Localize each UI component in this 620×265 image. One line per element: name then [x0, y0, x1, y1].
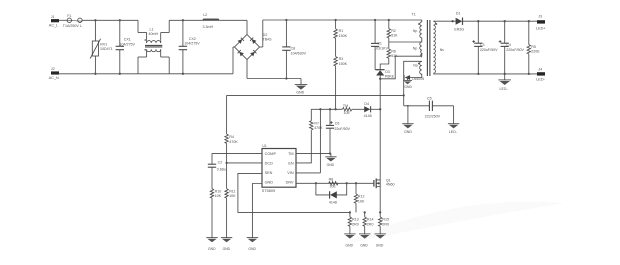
- svg-text:51K: 51K: [391, 34, 398, 38]
- svg-text:150K: 150K: [339, 62, 348, 66]
- net LED- at C5 right: [448, 106, 459, 134]
- resistor R5: [527, 21, 540, 74]
- resistor R7: [310, 109, 324, 130]
- junction R12 gate: [355, 182, 357, 184]
- svg-text:GND: GND: [404, 130, 412, 134]
- svg-text:GND: GND: [376, 243, 384, 247]
- svg-text:4148: 4148: [329, 200, 337, 204]
- junction DC+ R2: [388, 19, 390, 21]
- junction source sense node: [379, 211, 381, 213]
- svg-text:GND: GND: [296, 90, 304, 94]
- wire R3 down to feedback line: [335, 66, 337, 109]
- wire DCD line: [227, 162, 262, 164]
- junction D5 gnd: [407, 77, 409, 79]
- svg-text:Np: Np: [413, 46, 417, 50]
- svg-text:EN: EN: [288, 161, 294, 165]
- junction R5 top: [528, 20, 530, 22]
- resistor TM 10E: [342, 104, 352, 115]
- capacitor C3: [472, 21, 498, 74]
- ground R14: [359, 234, 370, 248]
- svg-text:104/630V: 104/630V: [291, 52, 307, 56]
- svg-text:104/275V: 104/275V: [184, 41, 200, 45]
- svg-text:J1: J1: [51, 15, 55, 19]
- svg-text:TM: TM: [343, 104, 348, 108]
- junction R14: [364, 211, 366, 213]
- svg-text:2R0: 2R0: [367, 222, 374, 226]
- ground primary near bridge: [295, 79, 308, 95]
- wire R1 to R3: [335, 38, 337, 56]
- wire GND pin route: [252, 184, 262, 238]
- svg-text:COMP: COMP: [265, 152, 277, 156]
- svg-text:LED-: LED-: [449, 130, 458, 134]
- junction R5 bottom: [528, 73, 530, 75]
- svg-text:220uF/50V: 220uF/50V: [506, 48, 524, 52]
- wire DRV gate line: [296, 182, 374, 184]
- svg-text:22uF/50V: 22uF/50V: [334, 127, 350, 131]
- watermark swoosh: [340, 202, 565, 245]
- wire DC+ rail: [263, 19, 422, 21]
- svg-text:RV1: RV1: [100, 42, 107, 46]
- svg-text:10K: 10K: [229, 194, 236, 198]
- wire EN line: [296, 130, 311, 163]
- capacitor C8: [282, 20, 306, 79]
- svg-text:GND: GND: [265, 180, 274, 184]
- junction C4 bottom: [504, 73, 506, 75]
- svg-text:222/250V: 222/250V: [425, 114, 441, 118]
- wire VIN line: [296, 172, 320, 174]
- resistor R15: [379, 212, 389, 234]
- svg-text:CX2: CX2: [189, 37, 196, 41]
- junction top rail CX2: [182, 19, 184, 21]
- capacitor C6: [326, 109, 351, 153]
- svg-text:DRV: DRV: [286, 180, 294, 184]
- ground at D5: [403, 78, 412, 89]
- svg-text:C3: C3: [480, 43, 485, 47]
- svg-text:R4: R4: [229, 135, 234, 139]
- svg-text:GND: GND: [327, 163, 335, 167]
- resistor R6: [387, 49, 398, 58]
- svg-text:4N60: 4N60: [386, 183, 395, 187]
- svg-text:D3: D3: [385, 70, 390, 74]
- diode D5 1N4005: [404, 75, 424, 81]
- svg-text:R3: R3: [339, 57, 344, 61]
- capacitor C4: [499, 21, 525, 74]
- resistor R10: [210, 189, 221, 238]
- connector J4 LED-: [536, 67, 545, 81]
- diode D6 gate 4148: [316, 183, 347, 204]
- svg-text:ER3G: ER3G: [454, 27, 464, 31]
- capacitor C5: [425, 96, 454, 118]
- svg-text:GND: GND: [404, 85, 412, 89]
- junction C4 top: [504, 20, 506, 22]
- ground R13: [344, 234, 355, 248]
- svg-text:C4: C4: [506, 43, 511, 47]
- svg-text:R5: R5: [531, 45, 536, 49]
- svg-text:Na: Na: [413, 64, 417, 68]
- svg-text:Np: Np: [413, 29, 417, 33]
- svg-text:Ns: Ns: [440, 48, 444, 52]
- wire R2 bottom to tap: [388, 38, 390, 49]
- diode D4 4148: [364, 102, 381, 118]
- svg-text:VIN: VIN: [287, 171, 294, 175]
- svg-text:R11: R11: [229, 189, 235, 193]
- capacitor C2: [208, 153, 226, 188]
- connector J3 LED+: [536, 14, 546, 30]
- wire top rail L1 to bridge: [169, 19, 247, 21]
- wire C1 to D3 cathode: [375, 69, 380, 71]
- wire drain vertical: [379, 79, 381, 178]
- svg-text:GND: GND: [360, 243, 368, 247]
- svg-text:2R0: 2R0: [352, 222, 359, 226]
- wire DC- rail: [247, 78, 301, 80]
- ground at C5 left: [402, 106, 413, 134]
- svg-text:L2: L2: [203, 13, 207, 17]
- junction bottom rail RV1: [94, 73, 96, 75]
- svg-text:R15: R15: [382, 218, 389, 222]
- svg-text:LED+: LED+: [536, 27, 546, 31]
- svg-text:L1: L1: [150, 28, 154, 32]
- MOSFET Q1: [374, 178, 395, 189]
- svg-text:GND: GND: [223, 247, 231, 251]
- svg-text:220E: 220E: [531, 50, 540, 54]
- junction bottom rail CX1: [119, 73, 121, 75]
- capacitor C1: [371, 20, 389, 70]
- svg-text:R2: R2: [391, 29, 396, 33]
- resistor R14: [363, 212, 373, 234]
- junction C3 bottom: [477, 73, 479, 75]
- svg-text:2R0: 2R0: [382, 222, 389, 226]
- ground at TM line: [325, 153, 336, 167]
- junction DC+ R1: [334, 19, 336, 21]
- svg-text:R12: R12: [358, 195, 365, 199]
- svg-text:P6KE: P6KE: [385, 75, 395, 79]
- secondary winding Ns: [433, 21, 435, 73]
- resistor R12: [354, 183, 365, 212]
- wire J1 to F1: [59, 19, 67, 21]
- wire feedback line y110: [311, 108, 342, 110]
- junction R13: [349, 211, 351, 213]
- aux winding Na: [420, 61, 422, 74]
- svg-text:R6: R6: [391, 49, 396, 53]
- phase dots: [418, 23, 420, 25]
- svg-text:R13: R13: [352, 218, 359, 222]
- junction C3 top: [477, 20, 479, 22]
- primary winding Np upper: [420, 22, 422, 38]
- ground R10: [206, 238, 217, 251]
- svg-text:40mH: 40mH: [149, 32, 159, 36]
- junction bottom rail CX2: [182, 73, 184, 75]
- junction gnd bus right: [403, 94, 405, 96]
- svg-text:C6: C6: [335, 122, 340, 126]
- wire COMP line: [212, 152, 262, 154]
- inductor L2: [203, 13, 219, 29]
- svg-text:LED-: LED-: [536, 78, 545, 82]
- transformer T1: [412, 12, 445, 76]
- diode D3 P6KE: [376, 70, 395, 79]
- svg-text:R8: R8: [329, 177, 334, 181]
- capacitor CX1: [116, 20, 136, 74]
- wire SEN route: [238, 173, 350, 212]
- wire Na bottom to D5: [410, 74, 422, 78]
- primary winding Np lower: [420, 42, 422, 57]
- resistor R11: [225, 163, 236, 238]
- resistor R8: [329, 177, 339, 188]
- common mode choke L1: [138, 20, 169, 74]
- svg-text:10E: 10E: [329, 185, 336, 189]
- varistor RV1: [90, 20, 112, 74]
- junction DC- C8: [285, 77, 287, 79]
- junction D4 to drain line: [379, 108, 381, 110]
- svg-text:J2: J2: [51, 67, 55, 71]
- svg-text:R7: R7: [314, 121, 319, 125]
- svg-text:220uF/50V: 220uF/50V: [480, 48, 498, 52]
- resistor R1: [334, 20, 348, 38]
- svg-text:470K: 470K: [314, 126, 323, 130]
- svg-text:T1: T1: [412, 12, 416, 16]
- svg-text:T1A/250V L: T1A/250V L: [63, 24, 82, 28]
- junction C5 gnd stem: [407, 105, 409, 107]
- junction divider on y110: [334, 108, 336, 110]
- svg-text:R1: R1: [339, 29, 344, 33]
- wire top AC rail: [82, 19, 138, 21]
- junction C6 bottom: [329, 152, 331, 154]
- svg-text:C5: C5: [427, 96, 432, 100]
- resistor R2: [387, 20, 398, 38]
- wire secondary bottom rail: [433, 73, 537, 75]
- svg-text:R14: R14: [367, 218, 374, 222]
- svg-text:R10: R10: [215, 189, 222, 193]
- svg-text:10E: 10E: [344, 111, 351, 115]
- IC U1 ST5809: [262, 144, 296, 193]
- bridge rectifier D2: [233, 20, 272, 79]
- net LED- at output: [498, 74, 511, 91]
- svg-text:LED-: LED-: [500, 87, 509, 91]
- ground R11: [221, 238, 232, 251]
- resistor R13: [348, 212, 358, 234]
- svg-text:D1: D1: [456, 12, 461, 16]
- svg-text:4148: 4148: [364, 114, 372, 118]
- svg-text:C8: C8: [291, 47, 296, 51]
- diode D1 ER3G: [433, 12, 537, 32]
- svg-text:AC_L: AC_L: [49, 23, 59, 27]
- svg-text:D2: D2: [263, 33, 268, 37]
- svg-text:F1: F1: [67, 14, 71, 18]
- svg-text:104/275V: 104/275V: [120, 43, 136, 47]
- svg-text:SEN: SEN: [265, 171, 273, 175]
- wire Q1 source: [379, 188, 381, 212]
- junction riser top: [319, 108, 321, 110]
- svg-text:CX1: CX1: [124, 38, 131, 42]
- svg-text:ST5809: ST5809: [262, 189, 275, 193]
- svg-text:U1: U1: [262, 144, 266, 148]
- core: [426, 20, 428, 76]
- svg-text:10D471: 10D471: [100, 47, 113, 51]
- wire drain node to transformer Np bottom: [380, 56, 422, 79]
- junction DCD node: [225, 162, 227, 164]
- junction C6 top: [329, 108, 331, 110]
- wire bottom AC rail: [59, 73, 233, 75]
- wire to D4: [352, 108, 364, 110]
- resistor R4: [225, 95, 238, 162]
- wire Na top to gnd bus: [404, 61, 422, 106]
- wire bus corner to C5: [404, 105, 429, 107]
- resistor R3: [334, 57, 348, 67]
- svg-text:C2: C2: [218, 160, 223, 164]
- svg-text:10K: 10K: [358, 199, 365, 203]
- fuse F1: [63, 14, 82, 28]
- riser wire x320: [319, 109, 321, 173]
- svg-text:TM: TM: [288, 152, 293, 156]
- wire tap to transformer: [389, 41, 422, 43]
- svg-text:DCD: DCD: [265, 161, 273, 165]
- svg-text:J4: J4: [538, 67, 542, 71]
- wire R6 to D3: [380, 58, 389, 69]
- junction D3 anode / drain node: [379, 78, 381, 80]
- ground R15: [375, 234, 386, 248]
- svg-text:10K: 10K: [215, 194, 222, 198]
- svg-text:3.3mH: 3.3mH: [203, 25, 214, 29]
- svg-text:GND: GND: [208, 247, 216, 251]
- svg-text:GND: GND: [346, 243, 354, 247]
- svg-text:AC_N: AC_N: [49, 76, 59, 80]
- wire TM line: [296, 152, 331, 154]
- junction DC+ C8: [285, 19, 287, 21]
- junction top rail RV1: [94, 19, 96, 21]
- svg-text:103/1KV: 103/1KV: [374, 46, 388, 50]
- svg-text:0.68u: 0.68u: [217, 168, 226, 172]
- svg-text:470K: 470K: [229, 140, 238, 144]
- junction gate branch left: [315, 182, 317, 184]
- ground IC: [247, 238, 258, 251]
- svg-text:C1: C1: [377, 42, 382, 46]
- svg-text:1N4005: 1N4005: [412, 77, 424, 81]
- junction DC+ C1: [374, 19, 376, 21]
- connector J2 AC_N: [49, 67, 59, 80]
- junction top rail CX1: [119, 19, 121, 21]
- svg-text:150K: 150K: [339, 34, 348, 38]
- gnd bus horizontal: [227, 94, 404, 96]
- svg-text:TB4S: TB4S: [263, 38, 273, 42]
- connector J1 AC_L: [49, 15, 59, 27]
- junction gate branch right: [346, 182, 348, 184]
- capacitor CX2: [179, 20, 201, 74]
- svg-text:D4: D4: [364, 102, 369, 106]
- svg-text:J3: J3: [538, 14, 542, 18]
- svg-text:GND: GND: [248, 247, 256, 251]
